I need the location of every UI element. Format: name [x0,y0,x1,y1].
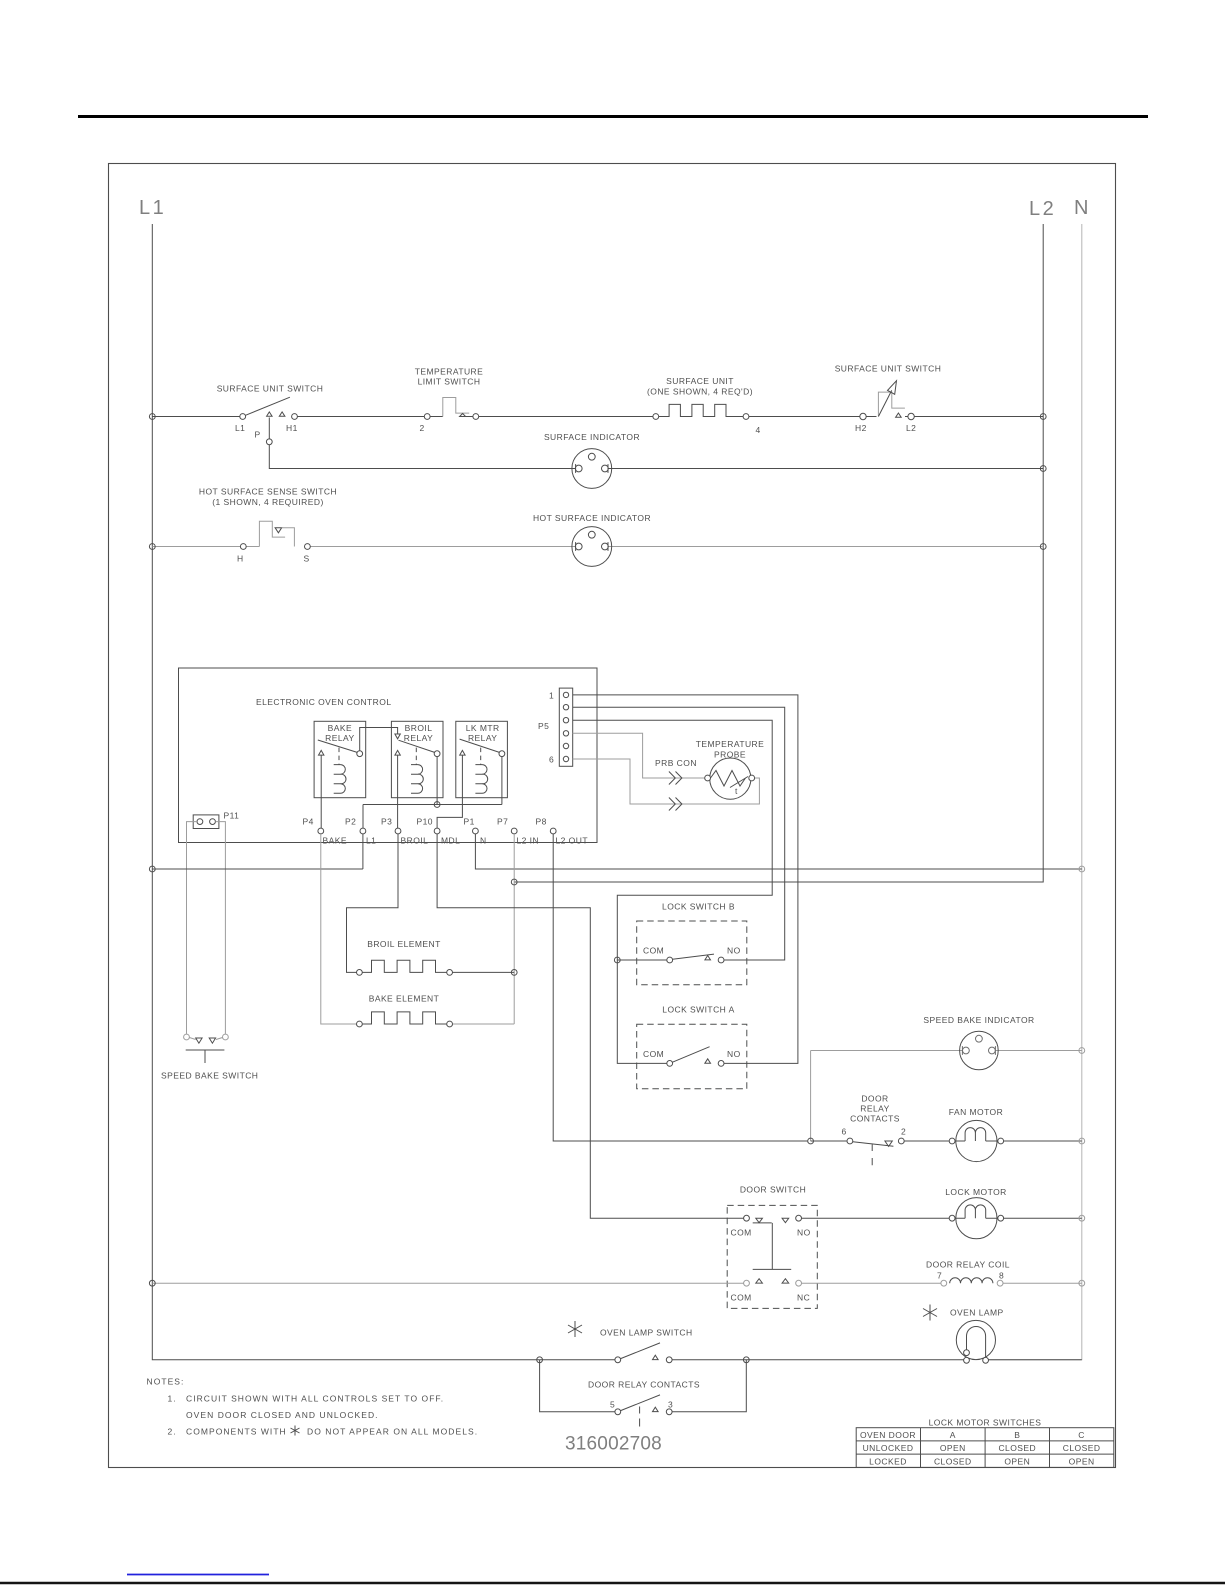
svg-text:HOT SURFACE INDICATOR: HOT SURFACE INDICATOR [533,513,651,523]
junction lamp row left [537,1357,543,1363]
svg-text:P11: P11 [224,811,240,821]
lock switch B [667,954,724,963]
svg-text:H: H [237,554,244,564]
svg-text:P7: P7 [497,817,508,827]
svg-text:BAKE: BAKE [328,723,352,733]
svg-text:NOTES:: NOTES: [147,1377,185,1387]
junction relay bus [434,802,440,808]
wire P1 to N rail [475,834,1081,869]
junction row3-L2 [1040,544,1046,550]
svg-text:RELAY: RELAY [860,1104,890,1114]
relay BAKE box [314,721,366,797]
connector P5 [559,688,572,766]
svg-text:LOCK MOTOR: LOCK MOTOR [945,1187,1007,1197]
surface unit element [653,404,749,419]
svg-text:LOCK SWITCH A: LOCK SWITCH A [662,1005,734,1015]
diagram border frame [109,164,1116,1468]
wire lock bracket to B COM [617,959,666,961]
svg-text:1: 1 [549,691,554,701]
junction wire-N [1079,866,1085,872]
connector P11 [193,815,219,829]
svg-text:COM: COM [643,946,664,956]
svg-text:A: A [950,1430,956,1440]
svg-text:OVEN DOOR: OVEN DOOR [860,1430,916,1440]
asterisk oven lamp switch [568,1321,582,1337]
svg-text:SPEED BAKE SWITCH: SPEED BAKE SWITCH [161,1071,258,1081]
wire P2 to L1 rail [152,834,363,869]
svg-text:7: 7 [937,1271,942,1281]
door relay contacts 5-3 [615,1395,672,1427]
door switch dashed box [727,1205,817,1308]
svg-text:OPEN: OPEN [1069,1456,1095,1466]
junction wire-L1 [149,866,155,872]
wire P5 pin6 to probe bottom [573,759,760,804]
svg-text:BROIL ELEMENT: BROIL ELEMENT [367,939,441,949]
wire P11 right to speed bake switch [215,822,225,1034]
temperature probe [705,758,755,799]
door switch upper pole [744,1215,802,1269]
wire door relay coil row [152,1282,1082,1284]
wire P branch to surface indicator row [269,418,1043,469]
svg-text:OPEN: OPEN [1004,1456,1030,1466]
svg-text:5: 5 [610,1400,615,1410]
svg-text:HOT SURFACE SENSE SWITCH: HOT SURFACE SENSE SWITCH [199,487,337,497]
svg-text:N: N [480,836,487,846]
svg-text:CONTACTS: CONTACTS [850,1114,900,1124]
svg-text:SURFACE UNIT SWITCH: SURFACE UNIT SWITCH [217,384,324,394]
wire oven lamp row [540,1359,1082,1361]
relay BROIL box [391,721,443,797]
svg-text:N: N [1074,197,1091,219]
pin P4 [318,828,324,834]
relay BAKE coil [334,765,346,794]
wire lock motor row [802,1217,1082,1219]
svg-text:TEMPERATURE: TEMPERATURE [415,367,484,377]
svg-text:S: S [304,554,310,564]
lock switch A [667,1047,724,1067]
junction row1-L1 [149,414,155,420]
svg-text:TEMPERATURE: TEMPERATURE [696,739,765,749]
relay BAKE contacts [318,740,363,765]
N rail wire [989,224,1082,1360]
svg-text:COM: COM [731,1228,752,1238]
svg-text:LOCK MOTOR SWITCHES: LOCK MOTOR SWITCHES [929,1418,1042,1428]
lock switch B dashed box [637,921,747,985]
svg-text:CLOSED: CLOSED [1063,1443,1101,1453]
svg-text:LK MTR: LK MTR [466,723,500,733]
wire P5 pin4 to probe [573,733,705,778]
svg-text:BAKE ELEMENT: BAKE ELEMENT [369,994,440,1004]
temperature limit switch [424,398,478,420]
svg-text:P8: P8 [536,817,547,827]
svg-text:DO NOT APPEAR ON ALL MODELS.: DO NOT APPEAR ON ALL MODELS. [307,1427,478,1437]
wire fan motor row [811,1140,1082,1142]
svg-text:NO: NO [727,1049,741,1059]
svg-text:C: C [1078,1430,1085,1440]
wire P5 pin3 to lock switches COM [573,720,773,1063]
svg-text:L2 OUT: L2 OUT [556,836,588,846]
junction L2 at P7 [511,879,517,885]
svg-text:SPEED BAKE INDICATOR: SPEED BAKE INDICATOR [923,1015,1034,1025]
svg-text:COM: COM [731,1293,752,1303]
svg-text:3: 3 [668,1400,673,1410]
svg-text:P2: P2 [345,817,356,827]
svg-text:NO: NO [797,1228,811,1238]
wire P5 pin2 to lock switch B NO [573,707,785,960]
speed bake switch [184,1034,229,1063]
wire row3 L1 to L2 hot surface row [152,546,1043,548]
junction coil-N [1079,1280,1085,1286]
junction row3-L1 [149,544,155,550]
junction lockmotor-N [1079,1215,1085,1221]
pin P3 [395,828,401,834]
svg-text:6: 6 [842,1127,847,1137]
wire relay commons bus to P2 [363,757,502,829]
svg-text:P5: P5 [538,721,549,731]
svg-text:COM: COM [643,1049,664,1059]
svg-text:BAKE: BAKE [323,836,347,846]
wire P10 MDL to door switch [437,834,743,1218]
contact P circle [266,439,272,445]
junction broil right [511,970,517,976]
top page rule [78,115,1148,118]
lock motor switches table [856,1428,1114,1468]
wire bake arrow to P4 [320,755,322,828]
wire lk mtr arrow to P10 [437,755,462,828]
svg-text:316002708: 316002708 [565,1434,662,1455]
svg-text:RELAY: RELAY [404,733,434,743]
svg-text:L2 IN: L2 IN [517,836,540,846]
pin P7 [511,828,517,834]
svg-text:DOOR: DOOR [861,1094,888,1104]
wire P11 left to speed bake switch [187,822,198,1034]
wire speed bake indicator row [811,1050,1082,1052]
svg-text:LOCKED: LOCKED [869,1456,907,1466]
relay LK MTR contacts [460,739,505,765]
svg-text:P: P [255,430,261,440]
svg-text:ELECTRONIC OVEN CONTROL: ELECTRONIC OVEN CONTROL [256,697,392,707]
door switch lower pole [744,1279,802,1286]
wire bake common to broil NC [360,728,398,751]
relay LK MTR coil [475,765,487,794]
surface indicator [572,449,612,489]
wire P5 pin1 to lock switch A NO [573,695,798,1064]
svg-text:SURFACE UNIT: SURFACE UNIT [666,376,734,386]
wire door relay contacts branch [540,1360,747,1412]
fan motor [949,1120,1003,1161]
svg-text:CLOSED: CLOSED [998,1443,1036,1453]
svg-text:PRB CON: PRB CON [655,758,697,768]
svg-text:SURFACE UNIT SWITCH: SURFACE UNIT SWITCH [835,364,942,374]
svg-text:DOOR RELAY COIL: DOOR RELAY COIL [926,1260,1010,1270]
wire broil arrow to P3 [397,755,399,828]
svg-text:BROIL: BROIL [405,723,433,733]
wire P3 broil down [347,834,399,972]
wire indicator branch down to fan row [810,1051,812,1142]
svg-text:FAN MOTOR: FAN MOTOR [949,1107,1003,1117]
lock switch A dashed box [637,1024,747,1089]
svg-text:(1 SHOWN, 4 REQUIRED): (1 SHOWN, 4 REQUIRED) [212,497,323,507]
asterisk oven lamp [923,1305,937,1321]
svg-text:LOCK SWITCH B: LOCK SWITCH B [662,902,735,912]
svg-text:OVEN LAMP SWITCH: OVEN LAMP SWITCH [600,1328,693,1338]
svg-text:COMPONENTS WITH: COMPONENTS WITH [186,1427,287,1437]
svg-text:L2: L2 [906,423,916,433]
svg-text:OVEN LAMP: OVEN LAMP [950,1308,1004,1318]
junction row1-L2 [1040,414,1046,420]
relay BROIL contacts [395,734,440,765]
svg-text:UNLOCKED: UNLOCKED [863,1443,914,1453]
surface unit switch 1 [240,397,298,419]
svg-text:2: 2 [901,1127,906,1137]
junction indicator-N [1079,1048,1085,1054]
wire P8 L2-OUT to fan row [553,834,808,1141]
relay BROIL coil [411,765,423,794]
svg-text:L1: L1 [366,836,376,846]
pin P10 [434,828,440,834]
hot surface sense switch [240,521,310,549]
svg-text:L1: L1 [139,197,166,219]
wire row1 L1 to L2 [152,416,1043,418]
junction coil-L1 [149,1280,155,1286]
svg-text:BROIL: BROIL [401,836,429,846]
svg-text:LIMIT SWITCH: LIMIT SWITCH [418,377,481,387]
electronic oven control box [179,668,598,843]
wire P7 L2-IN down to elements [453,834,515,1024]
junction row2-L2 [1040,466,1046,472]
surface unit switch 2 [860,381,915,420]
svg-text:L2: L2 [1029,198,1056,220]
pin P8 [550,828,556,834]
svg-text:DOOR RELAY CONTACTS: DOOR RELAY CONTACTS [588,1380,700,1390]
svg-text:2: 2 [420,423,425,433]
pin P2 [360,828,366,834]
svg-text:P4: P4 [303,817,314,827]
svg-text:MDL: MDL [441,836,460,846]
door relay coil [941,1278,1003,1286]
svg-text:P1: P1 [464,817,475,827]
junction fan row left [808,1138,814,1144]
connector chevron bottom [669,798,682,811]
door relay contacts 6-2 [847,1138,904,1165]
svg-text:L1: L1 [235,423,245,433]
svg-text:1.: 1. [168,1394,177,1404]
pin P1 [473,828,479,834]
svg-text:P10: P10 [417,817,433,827]
svg-text:DOOR SWITCH: DOOR SWITCH [740,1185,806,1195]
bottom page rule [0,1582,1225,1585]
blue underline segment [127,1574,269,1576]
lock motor [949,1198,1003,1239]
connector chevron top [669,772,682,785]
svg-text:NO: NO [727,946,741,956]
svg-text:CIRCUIT SHOWN WITH ALL CONTROL: CIRCUIT SHOWN WITH ALL CONTROLS SET TO O… [186,1394,444,1404]
broil element [357,960,515,975]
hot surface indicator [572,527,612,567]
svg-text:OPEN: OPEN [940,1443,966,1453]
junction lamp row right [743,1357,749,1363]
svg-text:4: 4 [756,425,761,435]
speed bake indicator [960,1031,999,1070]
svg-text:RELAY: RELAY [468,733,498,743]
svg-text:2.: 2. [168,1427,177,1437]
junction lock bracket B [614,957,620,963]
junction fan-N [1079,1138,1085,1144]
svg-text:t: t [735,786,738,796]
svg-text:6: 6 [549,755,554,765]
svg-text:H1: H1 [286,423,298,433]
svg-text:8: 8 [999,1271,1004,1281]
svg-text:SURFACE INDICATOR: SURFACE INDICATOR [544,432,640,442]
bake element [357,1012,453,1027]
oven lamp switch [615,1343,672,1363]
oven lamp [956,1320,995,1363]
L2 rail wire [514,224,1043,882]
svg-text:(ONE SHOWN, 4 REQ'D): (ONE SHOWN, 4 REQ'D) [647,387,753,397]
wire P4 bake down [321,834,357,1024]
svg-text:CLOSED: CLOSED [934,1456,972,1466]
svg-text:B: B [1014,1430,1020,1440]
svg-text:P3: P3 [381,817,392,827]
L1 rail wire [152,224,539,1360]
svg-text:H2: H2 [855,423,867,433]
svg-text:NC: NC [797,1293,810,1303]
svg-text:OVEN DOOR CLOSED AND UNLOCKED.: OVEN DOOR CLOSED AND UNLOCKED. [186,1410,379,1420]
relay LK MTR box [456,721,508,797]
svg-text:RELAY: RELAY [325,733,355,743]
